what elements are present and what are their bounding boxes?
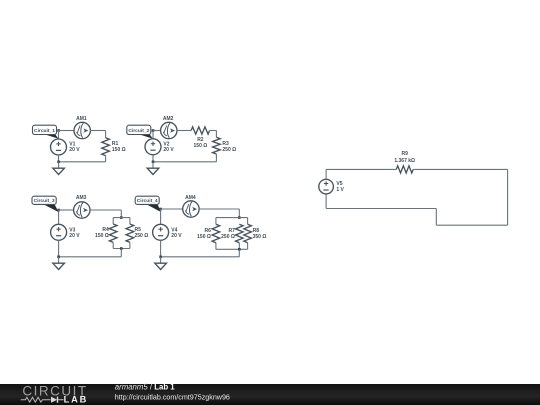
svg-text:150 Ω: 150 Ω <box>194 143 208 149</box>
svg-text:R9: R9 <box>401 151 408 157</box>
ammeter AM1 <box>74 122 90 138</box>
wire bottom return <box>153 161 216 163</box>
node Circuit_1 junction <box>57 129 60 132</box>
ground <box>155 257 167 270</box>
wire R4 bottom lead <box>112 242 114 248</box>
wire R3 top lead <box>215 131 217 138</box>
svg-text:armanm5 / Lab 1: armanm5 / Lab 1 <box>115 383 175 392</box>
voltage source V5 <box>319 179 334 194</box>
wire R7 bottom lead <box>238 243 240 250</box>
ammeter AM3 <box>74 202 90 218</box>
svg-text:AM2: AM2 <box>163 116 174 122</box>
wire R8 bottom lead <box>247 243 249 250</box>
svg-text:LAB: LAB <box>64 395 89 405</box>
wire top to R9 <box>326 168 396 170</box>
node parallel top <box>238 216 241 219</box>
svg-text:http://circuitlab.com/cmt975zg: http://circuitlab.com/cmt975zgknw96 <box>115 393 230 401</box>
svg-text:20 V: 20 V <box>69 233 80 239</box>
resistor R6 <box>212 224 220 243</box>
voltage source V4 <box>153 224 169 240</box>
logo diode <box>51 397 57 403</box>
wire down from pair <box>238 249 240 256</box>
wire R1 top lead <box>105 131 107 138</box>
wire R6 bottom lead <box>215 243 217 250</box>
wire flag to AM1 <box>59 130 75 132</box>
node ground junction <box>57 256 60 259</box>
wire V3 to ground node <box>58 240 60 256</box>
wire down to parallel pair <box>120 210 122 218</box>
svg-text:20 V: 20 V <box>163 147 174 153</box>
resistor R2 <box>191 127 210 134</box>
wire bottom rail <box>113 248 130 250</box>
wire V5 top lead <box>325 169 327 179</box>
node Circuit_3 junction <box>57 209 60 212</box>
svg-text:1.367 kΩ: 1.367 kΩ <box>394 158 415 164</box>
wire R9 to right corner <box>413 168 507 170</box>
wire top rail <box>216 217 248 219</box>
wire bottom return <box>161 256 240 258</box>
net flag Circuit_1 <box>33 125 59 138</box>
wire flag to AM2 <box>153 130 161 132</box>
node ground junction <box>57 161 60 164</box>
wire down from pair <box>120 249 122 257</box>
wire R6 top lead <box>215 218 217 225</box>
voltage source V3 <box>51 224 67 240</box>
wire bottom rail <box>216 248 248 250</box>
node parallel bottom <box>120 247 123 250</box>
wire flag to AM4 <box>161 208 184 210</box>
voltage source V2 <box>145 139 161 155</box>
wire node down to V1 <box>58 131 60 140</box>
svg-text:AM1: AM1 <box>76 116 87 122</box>
ammeter AM2 <box>161 122 177 138</box>
wire AM3 to corner <box>90 209 122 211</box>
wire R8 top lead <box>247 218 249 225</box>
node ground junction <box>152 161 155 164</box>
wire V5 bottom lead <box>325 194 327 209</box>
resistor R9 <box>396 166 413 173</box>
wire R5 top lead <box>129 218 131 224</box>
wire node down to V2 <box>152 131 154 140</box>
svg-text:AM4: AM4 <box>185 195 196 201</box>
node Circuit_4 junction <box>159 208 162 211</box>
resistor R7 <box>236 224 244 243</box>
wire bottom return <box>59 256 122 258</box>
resistor R8 <box>244 224 252 243</box>
net flag Circuit_3 <box>32 196 58 212</box>
wire R5 bottom lead <box>129 242 131 248</box>
resistor R4 <box>109 224 117 242</box>
svg-text:Circuit_4: Circuit_4 <box>137 198 158 204</box>
svg-text:Circuit_3: Circuit_3 <box>34 198 55 204</box>
svg-text:250 Ω: 250 Ω <box>221 234 235 240</box>
wire node down to V4 <box>160 209 162 225</box>
wire V1 to ground node <box>58 155 60 162</box>
wire AM1 to R1 corner <box>90 130 106 132</box>
svg-text:1 V: 1 V <box>336 187 344 193</box>
node parallel top <box>120 216 123 219</box>
svg-text:150 Ω: 150 Ω <box>197 234 211 240</box>
resistor R3 <box>213 137 221 154</box>
resistor R1 <box>102 138 110 156</box>
wire down to R7 top <box>238 209 240 218</box>
net flag Circuit_4 <box>135 196 161 212</box>
svg-text:250 Ω: 250 Ω <box>222 147 236 153</box>
resistor R5 <box>126 224 134 242</box>
node Circuit_2 junction <box>152 129 155 132</box>
svg-text:20 V: 20 V <box>69 147 80 153</box>
wire node down to V3 <box>58 210 60 225</box>
logo resistor squiggle <box>21 397 51 402</box>
footer bar <box>0 384 540 405</box>
net flag Circuit_2 <box>127 125 153 138</box>
svg-text:150 Ω: 150 Ω <box>112 147 126 153</box>
wire top rail <box>113 217 130 219</box>
ground <box>53 162 65 175</box>
wire step up <box>435 209 437 226</box>
voltage source V1 <box>51 139 67 155</box>
wire flag to AM3 <box>59 209 75 211</box>
wire bottom right segment <box>436 224 507 226</box>
node parallel bottom <box>238 248 241 251</box>
ground <box>53 257 65 270</box>
svg-text:350 Ω: 350 Ω <box>253 234 267 240</box>
wire AM2 to R2 <box>177 130 192 132</box>
wire V4 to ground node <box>160 240 162 256</box>
ground <box>147 162 159 175</box>
node ground junction <box>159 256 162 259</box>
svg-text:20 V: 20 V <box>171 233 182 239</box>
wire R1 bottom lead <box>105 156 107 162</box>
svg-text:Circuit_2: Circuit_2 <box>128 128 149 134</box>
wire right side down <box>507 169 509 225</box>
svg-text:250 Ω: 250 Ω <box>135 233 149 239</box>
wire bottom return <box>59 161 106 163</box>
wire R4 top lead <box>112 218 114 224</box>
wire bottom left segment <box>326 208 436 210</box>
svg-text:AM3: AM3 <box>76 195 87 201</box>
ammeter AM4 <box>183 201 199 217</box>
svg-text:Circuit_1: Circuit_1 <box>34 128 55 134</box>
svg-text:150 Ω: 150 Ω <box>95 233 109 239</box>
wire AM4 to corner <box>199 208 240 210</box>
wire R2 to corner <box>210 130 217 132</box>
wire V2 to ground node <box>152 155 154 162</box>
wire R3 bottom lead <box>215 154 217 162</box>
